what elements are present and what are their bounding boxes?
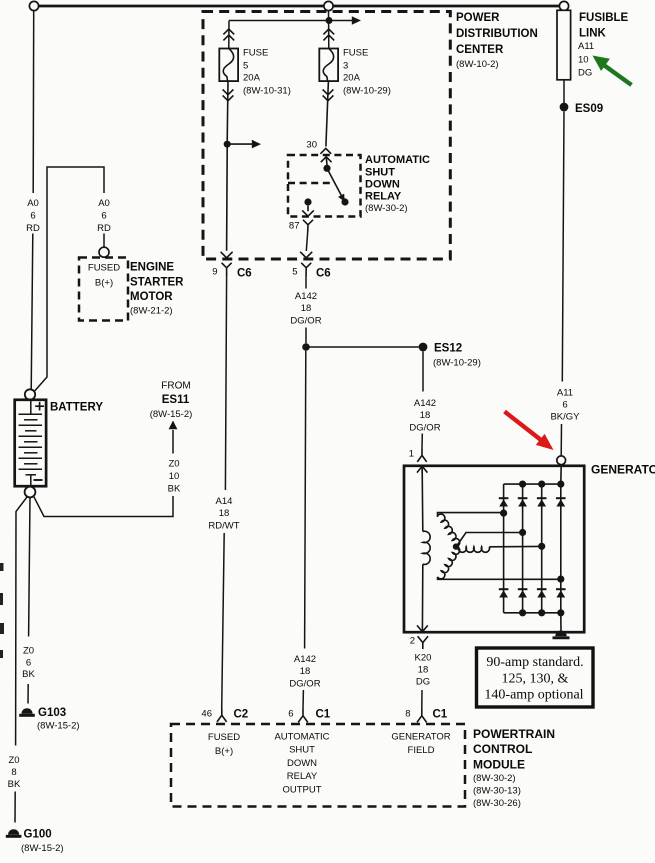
- svg-text:DG: DG: [578, 68, 592, 79]
- svg-text:6: 6: [101, 211, 106, 222]
- svg-text:125, 130, &: 125, 130, &: [502, 672, 569, 687]
- powertrain control module box: [171, 724, 465, 807]
- svg-text:8: 8: [11, 767, 16, 778]
- wire Z0 8 BK ground feed to G100: [16, 497, 28, 746]
- stator centre node: [453, 543, 459, 549]
- svg-text:BK: BK: [8, 779, 21, 790]
- wire K20 generator field drive: [421, 690, 423, 709]
- generator B+ terminal: [557, 456, 566, 465]
- label wire A142 18 DG/OR upper: [290, 291, 321, 327]
- generator field winding: [421, 470, 424, 532]
- svg-text:A0: A0: [27, 198, 39, 209]
- svg-text:(8W-30-26): (8W-30-26): [473, 798, 521, 809]
- svg-text:DISTRIBUTION: DISTRIBUTION: [456, 28, 538, 40]
- connector C1 pin 6 fork: [298, 709, 308, 722]
- diode D3: [537, 498, 547, 506]
- wire A14 18 RD/WT: [225, 277, 226, 490]
- svg-text:BK: BK: [22, 669, 35, 680]
- diode D5: [499, 589, 509, 597]
- svg-text:GENERATOR: GENERATOR: [391, 732, 450, 743]
- svg-text:(8W-10-2): (8W-10-2): [456, 59, 499, 70]
- relay pivot: [323, 165, 330, 172]
- svg-text:6: 6: [26, 658, 31, 669]
- svg-text:SHUT: SHUT: [289, 745, 315, 756]
- stator winding C: [458, 547, 489, 553]
- svg-text:ES12: ES12: [434, 343, 462, 355]
- wire fuse5 drop: [228, 21, 230, 49]
- rectifier column 2: [522, 484, 524, 613]
- label wire A142 18 DG/OR bottom: [289, 654, 320, 690]
- connector chevrons below fuse3: [323, 89, 334, 100]
- svg-text:5: 5: [243, 61, 248, 72]
- svg-text:(8W-30-2): (8W-30-2): [365, 203, 408, 214]
- engine starter motor terminal: [99, 247, 109, 257]
- label wire A142 18 DG/OR at ES12: [409, 398, 440, 434]
- svg-text:(8W-30-2): (8W-30-2): [473, 773, 516, 784]
- svg-text:BATTERY: BATTERY: [50, 402, 103, 414]
- svg-text:Z0: Z0: [23, 646, 34, 657]
- svg-text:DG/OR: DG/OR: [290, 316, 321, 327]
- svg-text:RD/WT: RD/WT: [208, 521, 239, 532]
- arrow from ES11: [169, 421, 178, 430]
- svg-text:90-amp standard.: 90-amp standard.: [486, 655, 583, 670]
- relay pin 30 chevron: [320, 148, 331, 153]
- svg-text:Z0: Z0: [8, 755, 19, 766]
- connector C2 pin 46 fork: [217, 709, 227, 722]
- svg-text:6: 6: [288, 709, 293, 720]
- svg-text:A14: A14: [216, 496, 233, 507]
- rectifier column 3: [541, 484, 543, 613]
- battery negative terminal: [25, 487, 36, 498]
- junction top bus 2: [519, 481, 526, 488]
- svg-text:(8W-15-2): (8W-15-2): [150, 409, 193, 420]
- arrow PDC bus continuation: [352, 16, 361, 25]
- wire Z0 6 BK ground feed to G103: [29, 497, 30, 637]
- svg-text:20A: 20A: [343, 73, 361, 84]
- label FUSED B(+) starter: [88, 263, 120, 289]
- svg-text:A142: A142: [294, 654, 316, 665]
- battery B1: [15, 400, 46, 486]
- svg-text:AUTOMATIC: AUTOMATIC: [274, 732, 329, 743]
- svg-text:BK/GY: BK/GY: [550, 412, 580, 423]
- engine starter motor box: [79, 258, 128, 321]
- svg-text:C2: C2: [234, 709, 249, 721]
- wire fuse5 output: [226, 81, 229, 141]
- svg-text:30: 30: [306, 140, 317, 151]
- rectifier column 4: [560, 484, 562, 613]
- green arrow callout: [604, 65, 632, 85]
- svg-text:G100: G100: [24, 829, 52, 841]
- rectifier column 1: [503, 484, 505, 613]
- battery plus mark: [35, 405, 44, 407]
- generator field pin 2 arrow: [417, 625, 428, 631]
- label wire A11 6 BK/GY: [550, 388, 580, 423]
- wire A0 6 RD battery positive feed: [32, 11, 35, 193]
- power distribution center box: [203, 12, 450, 260]
- wire rectifier ground: [560, 613, 562, 632]
- wire Z0 10 BK from ES11: [172, 430, 174, 454]
- wire A0 6 RD starter feed: [34, 167, 104, 392]
- svg-text:8: 8: [405, 709, 410, 720]
- connector chevrons above fuse3: [323, 29, 334, 40]
- connector generator pin 2 fork: [418, 636, 428, 649]
- stator phase B wire: [456, 533, 523, 548]
- svg-text:DG/OR: DG/OR: [409, 423, 440, 434]
- scan artifacts left edge: [0, 563, 4, 571]
- connector chevrons above fuse5: [223, 29, 234, 40]
- wire A142 18 DG/OR lower: [305, 351, 306, 649]
- stator phase A line: [438, 513, 504, 517]
- wire splice ES12 link: [306, 346, 419, 348]
- junction top bus 4: [557, 481, 564, 488]
- svg-text:G103: G103: [38, 707, 66, 719]
- diode D7: [537, 589, 547, 597]
- connector C6 pin 9 crossing: [221, 252, 233, 278]
- label FROM ES11: [150, 381, 193, 421]
- label wire A0 6 RD left: [26, 198, 40, 234]
- svg-text:18: 18: [300, 666, 311, 677]
- svg-text:A142: A142: [414, 398, 436, 409]
- svg-text:C1: C1: [316, 709, 331, 721]
- connector chevrons below fuse5: [223, 89, 234, 100]
- wire PDC internal bus: [229, 20, 329, 22]
- svg-text:Z0: Z0: [168, 459, 179, 470]
- relay switch blade: [327, 168, 343, 199]
- svg-text:DG/OR: DG/OR: [289, 679, 320, 690]
- junction bottom bus 4: [557, 609, 564, 616]
- label AUTOMATIC SHUT DOWN RELAY OUTPUT: [274, 732, 329, 796]
- svg-text:1: 1: [409, 449, 414, 460]
- svg-text:(8W-30-13): (8W-30-13): [473, 786, 521, 797]
- wire A142 18 DG/OR upper: [305, 277, 307, 288]
- ground generator case: [555, 631, 566, 637]
- label wire K20 18 DG: [415, 653, 432, 688]
- svg-text:FROM: FROM: [161, 381, 190, 392]
- svg-text:140-amp optional: 140-amp optional: [484, 688, 583, 703]
- junction top bus 3: [538, 481, 545, 488]
- label wire A14 18 RD/WT: [208, 496, 239, 532]
- diode D1: [499, 498, 509, 506]
- connector generator pin 1 fork and pin arrow: [417, 449, 427, 475]
- svg-text:POWERTRAIN: POWERTRAIN: [473, 727, 555, 741]
- svg-text:18: 18: [418, 665, 429, 676]
- svg-text:18: 18: [219, 508, 230, 519]
- battery minus mark: [34, 479, 43, 481]
- svg-text:(8W-10-31): (8W-10-31): [243, 86, 291, 97]
- svg-text:C6: C6: [316, 268, 331, 280]
- svg-text:K20: K20: [415, 653, 432, 664]
- svg-text:AUTOMATIC: AUTOMATIC: [365, 154, 430, 166]
- svg-text:87: 87: [289, 221, 300, 232]
- node ES09: [560, 103, 569, 112]
- svg-text:GENERATOR: GENERATOR: [591, 463, 655, 477]
- stator winding A: [438, 514, 460, 546]
- fuse F5: [219, 49, 238, 82]
- rectifier bottom bus: [504, 612, 561, 614]
- svg-text:A142: A142: [295, 291, 317, 302]
- svg-text:FUSE: FUSE: [243, 48, 268, 59]
- svg-text:POWER: POWER: [456, 12, 500, 24]
- svg-text:5: 5: [292, 267, 297, 278]
- svg-text:RELAY: RELAY: [365, 191, 402, 203]
- junction stator tap 3: [538, 543, 545, 550]
- junction A142 splice: [302, 343, 310, 351]
- svg-text:A11: A11: [557, 388, 573, 399]
- diode D2: [518, 498, 528, 506]
- svg-text:C6: C6: [237, 268, 252, 280]
- diode D6: [518, 589, 528, 597]
- wire fuse3 output to relay pin 30: [326, 81, 329, 146]
- diode D8: [556, 589, 566, 597]
- relay contact 87: [304, 198, 311, 205]
- svg-text:A11: A11: [578, 41, 594, 52]
- svg-text:10: 10: [169, 471, 180, 482]
- wire ES12 to generator field 1: [422, 351, 424, 391]
- node top-left splice: [29, 1, 38, 10]
- svg-text:18: 18: [301, 303, 312, 314]
- svg-text:FUSE: FUSE: [343, 48, 368, 59]
- junction stator tap 1: [500, 509, 507, 516]
- label FUSED B(+) pcm: [208, 732, 240, 757]
- svg-text:OUTPUT: OUTPUT: [282, 785, 321, 796]
- connector C6 pin 5 crossing: [300, 252, 312, 278]
- svg-text:6: 6: [562, 400, 567, 411]
- wire fuse3 drop: [328, 11, 330, 49]
- svg-text:FIELD: FIELD: [408, 745, 435, 756]
- fuse F3: [319, 49, 338, 82]
- svg-text:RELAY: RELAY: [287, 771, 318, 782]
- node top-middle splice: [324, 1, 333, 10]
- connector pin 87 fork: [303, 220, 313, 232]
- stator winding D: [438, 546, 460, 578]
- svg-text:SHUT: SHUT: [365, 167, 395, 179]
- note box 90-amp: [477, 648, 594, 707]
- svg-text:ES09: ES09: [575, 103, 603, 115]
- junction bottom bus 2: [519, 609, 526, 616]
- wire top battery-feed bus: [39, 5, 560, 8]
- connector C1 pin 8 fork: [417, 709, 427, 722]
- svg-text:6: 6: [30, 211, 35, 222]
- battery positive terminal: [25, 389, 35, 399]
- svg-text:DG: DG: [416, 677, 430, 688]
- svg-text:CONTROL: CONTROL: [473, 742, 532, 756]
- svg-text:10: 10: [578, 55, 589, 66]
- svg-text:B(+): B(+): [95, 278, 113, 289]
- ground G103: [21, 708, 32, 714]
- rectifier top bus: [504, 483, 561, 485]
- junction stator tap 2: [519, 529, 526, 536]
- svg-text:(8W-21-2): (8W-21-2): [130, 306, 173, 317]
- svg-text:DOWN: DOWN: [287, 758, 317, 769]
- red arrow callout: [505, 412, 542, 441]
- svg-text:46: 46: [201, 709, 212, 720]
- node ES12: [419, 343, 428, 352]
- relay pin 30 entry chevron: [321, 157, 332, 165]
- svg-text:ES11: ES11: [162, 394, 190, 406]
- fusible link A11: [557, 10, 571, 80]
- svg-text:STARTER: STARTER: [130, 277, 184, 289]
- label wire Z0 6 BK: [22, 646, 35, 681]
- svg-text:FUSIBLE: FUSIBLE: [579, 12, 629, 24]
- svg-text:ENGINE: ENGINE: [130, 262, 174, 274]
- svg-text:DOWN: DOWN: [365, 179, 400, 191]
- svg-text:3: 3: [343, 61, 348, 72]
- wire fusible link to ES09: [563, 80, 565, 103]
- junction fuse5 tap: [224, 141, 231, 148]
- svg-text:FUSED: FUSED: [208, 732, 240, 743]
- automatic shut down relay box: [288, 155, 361, 217]
- junction stator tap 4: [557, 576, 564, 583]
- diode D4: [556, 498, 566, 506]
- label wire Z0 10 BK: [168, 459, 181, 495]
- ground G100: [8, 829, 19, 835]
- svg-text:9: 9: [212, 267, 217, 278]
- svg-text:2: 2: [410, 636, 415, 647]
- relay internal partition: [288, 182, 335, 185]
- svg-text:MOTOR: MOTOR: [130, 291, 173, 303]
- svg-text:LINK: LINK: [579, 28, 607, 40]
- arrow fuse5 tap continuation: [252, 140, 261, 149]
- generator box: [404, 466, 584, 632]
- svg-text:(8W-10-29): (8W-10-29): [343, 86, 391, 97]
- wire A11 6 BK/GY: [562, 112, 564, 382]
- svg-text:C1: C1: [433, 709, 448, 721]
- svg-text:CENTER: CENTER: [456, 44, 504, 56]
- svg-text:(8W-10-29): (8W-10-29): [433, 358, 481, 369]
- svg-text:A0: A0: [98, 198, 110, 209]
- label amp ratings: [484, 655, 583, 703]
- svg-text:RD: RD: [97, 223, 111, 234]
- svg-text:(8W-15-2): (8W-15-2): [21, 843, 64, 854]
- svg-text:BK: BK: [168, 484, 181, 495]
- svg-text:RD: RD: [26, 223, 40, 234]
- label GENERATOR FIELD: [391, 732, 450, 757]
- junction bottom bus 3: [538, 609, 545, 616]
- label wire A0 6 RD right: [97, 198, 111, 234]
- svg-text:18: 18: [420, 410, 431, 421]
- junction PDC bus: [326, 17, 333, 24]
- node top-right splice: [559, 1, 568, 10]
- svg-text:FUSED: FUSED: [88, 263, 120, 274]
- svg-text:(8W-15-2): (8W-15-2): [37, 721, 80, 732]
- svg-text:MODULE: MODULE: [473, 758, 525, 772]
- svg-text:20A: 20A: [243, 73, 261, 84]
- svg-text:B(+): B(+): [215, 746, 233, 757]
- label wire Z0 8 BK: [8, 755, 21, 790]
- wire relay 87 to C6: [306, 232, 307, 251]
- wire B+ output: [560, 465, 562, 484]
